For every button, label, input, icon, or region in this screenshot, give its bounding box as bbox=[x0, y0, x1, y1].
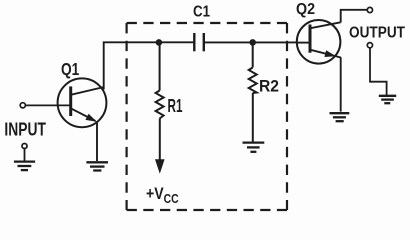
svg-text:+V: +V bbox=[146, 184, 164, 203]
svg-text:Q1: Q1 bbox=[61, 59, 80, 79]
wire (output return to ground) bbox=[370, 48, 387, 95]
wire (Q1 emitter down) bbox=[96, 122, 98, 161]
node (junction of collector rail and R1) bbox=[156, 39, 163, 46]
svg-text:R1: R1 bbox=[168, 96, 183, 116]
wire (Q2 emitter down) bbox=[340, 57, 342, 111]
ground (R2) bbox=[243, 143, 265, 152]
node (junction of rail and R2) bbox=[249, 39, 256, 46]
ground (output) bbox=[379, 96, 396, 103]
wire (C1 right plate to Q2 base) bbox=[205, 41, 297, 43]
output terminal (bottom) bbox=[367, 43, 372, 48]
input terminal bbox=[20, 103, 25, 108]
capacitor C1 bbox=[194, 33, 204, 51]
wire (Q1 collector up to top rail) bbox=[104, 42, 195, 89]
transistor Q1 bbox=[58, 78, 107, 127]
ground (input) bbox=[14, 144, 35, 171]
svg-text:INPUT: INPUT bbox=[4, 120, 46, 140]
svg-text:CC: CC bbox=[164, 192, 179, 206]
output terminal (top) bbox=[367, 7, 372, 12]
wire (Q2 collector to output terminal) bbox=[341, 10, 368, 23]
resistor R1 bbox=[155, 42, 165, 173]
resistor R2 bbox=[249, 42, 257, 142]
svg-text:C1: C1 bbox=[193, 3, 210, 20]
ground (Q2 emitter) bbox=[330, 113, 350, 121]
ground (Q1 emitter) bbox=[86, 162, 108, 170]
svg-text:R2: R2 bbox=[259, 77, 279, 96]
wire bbox=[26, 104, 70, 106]
svg-text:Q2: Q2 bbox=[296, 1, 315, 18]
svg-text:OUTPUT: OUTPUT bbox=[349, 25, 406, 42]
transistor Q2 bbox=[297, 20, 341, 64]
dashed enclosure (bias network box) bbox=[127, 23, 287, 210]
